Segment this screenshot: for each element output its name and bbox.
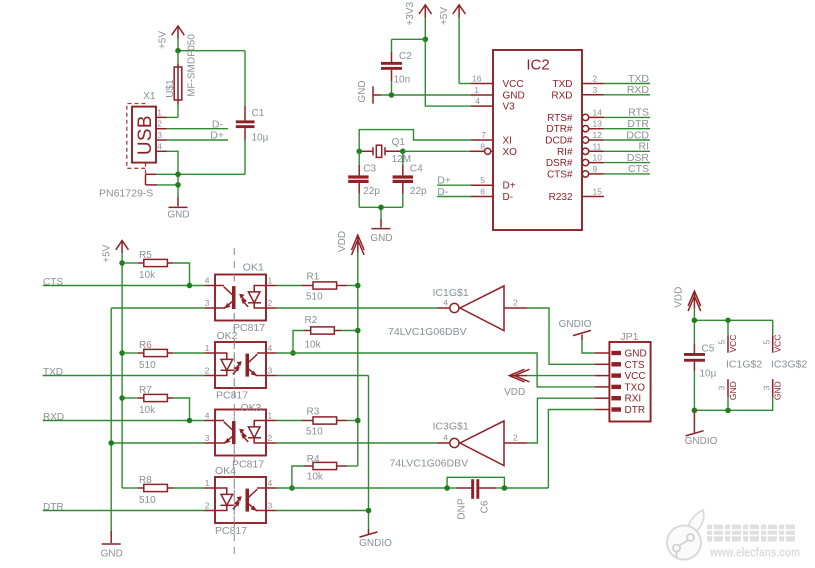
connector X1 USB body xyxy=(99,91,156,199)
connector X1 USB shield (dashed) xyxy=(127,104,146,185)
pin IC2 15 (unconnected) xyxy=(582,187,604,197)
svg-text:IC1G$2: IC1G$2 xyxy=(726,359,762,371)
isolation boundary dashed line xyxy=(233,248,235,557)
svg-text:5: 5 xyxy=(480,175,485,185)
svg-text:R3: R3 xyxy=(307,407,320,418)
supply +3V3 xyxy=(405,2,432,40)
wire GND net under USB xyxy=(156,174,245,196)
resistor R1 510 (OK1 pullup) xyxy=(277,272,358,303)
svg-text:DSR: DSR xyxy=(627,152,650,164)
wire DTR row xyxy=(43,502,205,513)
resistor R4 10k (OK4 pullup) xyxy=(292,454,358,488)
pin IC2 DTR# 13 / net label DTR xyxy=(582,118,650,132)
svg-text:R4: R4 xyxy=(307,454,320,465)
svg-text:USB: USB xyxy=(135,115,156,155)
svg-text:GND: GND xyxy=(503,90,525,101)
pin IC2 RXD 3 / net label RXD xyxy=(582,84,650,96)
node junction crystal left xyxy=(356,149,362,155)
svg-text:1: 1 xyxy=(205,343,210,353)
svg-text:TXD: TXD xyxy=(553,79,573,90)
node junction OK3 emitter xyxy=(108,440,114,446)
svg-text:10n: 10n xyxy=(394,75,411,86)
svg-text:510: 510 xyxy=(306,292,323,303)
svg-text:22p: 22p xyxy=(363,186,380,197)
svg-text:OK2: OK2 xyxy=(217,330,238,342)
svg-text:10: 10 xyxy=(593,153,603,163)
node junction +3V3/C2 xyxy=(423,37,429,43)
svg-text:GND: GND xyxy=(357,80,368,102)
wire JP1 GND pin to GNDIO xyxy=(582,340,595,353)
supply +5V (USB area) xyxy=(157,26,184,51)
wire D+ to IC2 pin5 xyxy=(437,175,493,187)
pin stub USB pin4 wire to GND net xyxy=(156,151,178,174)
svg-text:GNDIO: GNDIO xyxy=(685,436,718,447)
svg-text:GNDIO: GNDIO xyxy=(559,319,592,330)
svg-text:OK1: OK1 xyxy=(243,261,264,273)
svg-text:R2: R2 xyxy=(305,315,318,326)
svg-text:3: 3 xyxy=(205,298,210,308)
svg-text:3: 3 xyxy=(268,501,273,511)
svg-text:www.elecfans.com: www.elecfans.com xyxy=(709,545,800,560)
wire VDD rail (right block) xyxy=(694,320,772,344)
svg-text:R1: R1 xyxy=(307,272,320,283)
svg-text:2: 2 xyxy=(205,501,210,511)
svg-text:VDD: VDD xyxy=(337,231,348,252)
svg-text:510: 510 xyxy=(139,360,156,371)
svg-text:CTS: CTS xyxy=(625,360,645,371)
svg-text:1: 1 xyxy=(157,107,162,117)
svg-text:PC817: PC817 xyxy=(232,459,264,471)
svg-text:VCC: VCC xyxy=(728,335,738,353)
svg-text:8: 8 xyxy=(480,141,485,151)
svg-text:CTS#: CTS# xyxy=(547,169,573,180)
wire OK1 LED cathode to inverter IC1 output xyxy=(277,307,450,309)
pin numbers USB 1-4 xyxy=(157,107,162,151)
wire C3/C4 common to ground xyxy=(359,207,403,219)
pin IC2 CTS# 9 / net label CTS xyxy=(582,163,650,177)
ground GND (USB) xyxy=(167,197,189,221)
wire +5V net to C1 xyxy=(178,50,245,52)
svg-text:14: 14 xyxy=(593,107,603,117)
ground GNDIO (bottom) xyxy=(359,529,392,549)
svg-text:DCD#: DCD# xyxy=(545,136,573,147)
svg-text:3: 3 xyxy=(761,385,771,390)
svg-text:22p: 22p xyxy=(410,186,427,197)
wire fuse to USB pin1 xyxy=(156,100,178,117)
svg-text:16: 16 xyxy=(472,74,482,84)
pin IC2 TXD 2 / net label TXD xyxy=(582,73,650,85)
svg-text:6: 6 xyxy=(480,187,485,197)
node junctions on +5V rail xyxy=(119,260,125,266)
svg-text:IC1G$1: IC1G$1 xyxy=(433,287,469,299)
svg-text:XI: XI xyxy=(503,136,512,147)
power pins IC3G$2 xyxy=(694,320,807,410)
connector JP1 xyxy=(595,331,651,422)
optocoupler OK3 PC817 xyxy=(205,402,277,470)
wire IC1 input from JP1 CTS xyxy=(527,308,594,364)
svg-text:4: 4 xyxy=(157,141,162,151)
svg-text:VCC: VCC xyxy=(625,371,646,382)
resistor R3 510 (OK3 pullup) xyxy=(277,407,358,438)
wire GND rail (left, OK1/OK3 emitters) xyxy=(111,308,204,531)
node junction +5V/fuse xyxy=(175,48,181,54)
svg-text:U$1: U$1 xyxy=(165,79,176,98)
wire +5V to IC2 pin16 xyxy=(459,83,493,85)
svg-text:+5V: +5V xyxy=(439,7,450,25)
svg-text:4: 4 xyxy=(443,433,448,443)
ground GNDIO (right block) xyxy=(685,410,718,447)
pin IC2 DSR# 10 / net label DSR xyxy=(582,152,650,166)
svg-text:V3: V3 xyxy=(503,102,516,113)
svg-text:VDD: VDD xyxy=(674,287,685,308)
svg-text:D+: D+ xyxy=(210,130,224,142)
svg-text:+3V3: +3V3 xyxy=(405,2,416,26)
svg-text:RXD: RXD xyxy=(627,84,650,96)
svg-text:C3: C3 xyxy=(363,164,376,175)
svg-text:4: 4 xyxy=(268,343,273,353)
watermark elecfans logo xyxy=(667,510,704,560)
svg-text:GNDIO: GNDIO xyxy=(359,538,392,549)
resistor R2 10k (OK2 pullup) xyxy=(293,315,358,353)
svg-text:15: 15 xyxy=(593,187,603,197)
svg-text:1: 1 xyxy=(268,411,273,421)
svg-text:D+: D+ xyxy=(503,181,516,192)
pin IC2 RI# 11 / net label RI xyxy=(582,141,650,155)
supply VDD (isolated side rail) xyxy=(337,231,364,466)
svg-text:4: 4 xyxy=(475,96,480,106)
svg-text:IC3G$1: IC3G$1 xyxy=(433,421,469,433)
wire XO net (crystal to IC2 pin8 with circle) xyxy=(403,148,493,154)
svg-text:C6: C6 xyxy=(480,500,491,513)
power pins IC1G$2 xyxy=(717,320,763,410)
svg-text:DTR#: DTR# xyxy=(546,124,573,135)
supply VDD (right block) xyxy=(674,287,701,321)
svg-text:+5V: +5V xyxy=(101,244,112,262)
svg-text:PN61729-S: PN61729-S xyxy=(99,187,153,199)
wire OK2 emitter to GNDIO rail xyxy=(277,376,369,530)
svg-text:10µ: 10µ xyxy=(252,133,269,144)
svg-text:GND: GND xyxy=(370,233,392,244)
svg-text:R6: R6 xyxy=(139,340,152,351)
svg-text:74LVC1G06DBV: 74LVC1G06DBV xyxy=(390,458,469,470)
wire OK4 collector net to JP1 DTR xyxy=(277,410,595,489)
IC2 FT232 box xyxy=(493,50,582,230)
svg-text:5: 5 xyxy=(717,340,727,345)
svg-text:D-: D- xyxy=(212,118,224,130)
svg-text:GND: GND xyxy=(625,349,647,360)
svg-text:CTS: CTS xyxy=(628,163,649,175)
supply +5V (top) xyxy=(439,5,465,84)
svg-text:4: 4 xyxy=(205,411,210,421)
supply VDD (JP1 VCC, pointing left) xyxy=(504,369,595,398)
wire CTS row xyxy=(43,277,205,288)
svg-text:3: 3 xyxy=(205,433,210,443)
svg-text:C4: C4 xyxy=(410,164,423,175)
svg-text:GND: GND xyxy=(101,549,123,560)
svg-text:2: 2 xyxy=(205,366,210,376)
optocoupler OK1 PC817 xyxy=(205,261,277,334)
svg-text:GND: GND xyxy=(167,210,189,221)
svg-text:3: 3 xyxy=(268,366,273,376)
svg-text:D-: D- xyxy=(503,192,514,203)
svg-text:C2: C2 xyxy=(399,51,412,62)
capacitor C1 10u xyxy=(236,51,269,175)
svg-text:2: 2 xyxy=(268,433,273,443)
svg-text:RXI: RXI xyxy=(625,394,642,405)
svg-text:510: 510 xyxy=(139,495,156,506)
node junction R7/RXD xyxy=(187,418,193,424)
wire D- to IC2 pin6 xyxy=(437,186,493,198)
svg-text:510: 510 xyxy=(306,427,323,438)
svg-text:RXD: RXD xyxy=(43,412,64,423)
svg-text:IC2: IC2 xyxy=(526,57,549,74)
wire OK2 collector net to TXO xyxy=(277,353,595,387)
node junction crystal right xyxy=(400,149,406,155)
resistor R8 510 xyxy=(122,475,204,506)
pin stub USB pin2 / wire D- xyxy=(156,118,228,130)
svg-text:4: 4 xyxy=(443,298,448,308)
svg-text:12: 12 xyxy=(593,130,603,140)
svg-text:1: 1 xyxy=(268,276,273,286)
svg-text:4: 4 xyxy=(268,478,273,488)
wire OK3 LED cathode to inverter IC3 output xyxy=(277,442,450,444)
capacitor C4 22p xyxy=(393,151,427,207)
svg-text:PC817: PC817 xyxy=(215,525,247,537)
svg-text:R8: R8 xyxy=(139,475,152,486)
svg-text:RTS#: RTS# xyxy=(547,113,573,124)
svg-text:2: 2 xyxy=(268,298,273,308)
svg-text:13: 13 xyxy=(593,119,603,129)
optocoupler OK2 PC817 xyxy=(205,330,277,402)
pin IC2 RTS# 14 / net label RTS xyxy=(582,107,650,121)
node junctions GND net xyxy=(175,172,181,178)
pin numbers IC2 left xyxy=(472,74,486,197)
ground GND (C2, rotated) xyxy=(357,80,382,103)
svg-text:VCC: VCC xyxy=(773,335,783,353)
svg-text:10k: 10k xyxy=(139,270,156,281)
svg-text:VCC: VCC xyxy=(503,79,524,90)
svg-text:XO: XO xyxy=(503,147,518,158)
svg-text:DCD: DCD xyxy=(626,129,649,141)
svg-text:3: 3 xyxy=(593,85,598,95)
svg-text:JP1: JP1 xyxy=(620,331,638,343)
resistor R5 10k xyxy=(122,250,189,286)
wire XI net (IC2 pin7 to crystal left) xyxy=(359,130,493,152)
svg-text:R232: R232 xyxy=(549,192,573,203)
inverter IC1G$1 74LVC1G06DBV xyxy=(388,286,527,338)
svg-text:RXD: RXD xyxy=(551,90,572,101)
wire IC3 input from JP1 RXI xyxy=(527,398,594,443)
svg-text:10k: 10k xyxy=(139,405,156,416)
svg-text:RTS: RTS xyxy=(628,107,649,119)
svg-text:3: 3 xyxy=(157,130,162,140)
svg-text:2: 2 xyxy=(513,298,518,308)
ground GND (crystal) xyxy=(370,219,392,244)
watermark chinese text xyxy=(707,525,795,542)
capacitor C5 10u xyxy=(684,344,717,411)
svg-text:4: 4 xyxy=(205,276,210,286)
svg-text:OK4: OK4 xyxy=(215,465,236,477)
inverter IC3G$1 74LVC1G06DBV xyxy=(390,421,528,470)
svg-text:DSR#: DSR# xyxy=(546,158,573,169)
svg-text:GND: GND xyxy=(728,381,738,400)
ground GND (bottom left) xyxy=(101,531,123,560)
svg-text:7: 7 xyxy=(481,130,486,140)
svg-text:2: 2 xyxy=(593,74,598,84)
svg-text:C1: C1 xyxy=(252,108,265,119)
wire GND net to IC2 pin1 xyxy=(381,94,493,96)
supply +5V (lower left) xyxy=(101,241,128,488)
svg-text:2: 2 xyxy=(157,119,162,129)
wire RXD row xyxy=(43,412,205,423)
node junction R5/CTS xyxy=(187,283,193,289)
svg-text:5: 5 xyxy=(761,340,771,345)
svg-text:+5V: +5V xyxy=(157,31,168,49)
svg-text:CTS: CTS xyxy=(43,277,63,288)
svg-text:DNP: DNP xyxy=(457,498,468,519)
ground GNDIO (JP1) xyxy=(559,319,592,340)
capacitor C6 DNP xyxy=(447,477,504,519)
wire TXD row xyxy=(43,367,205,378)
node junction C3/C4 xyxy=(378,205,384,211)
svg-text:TXO: TXO xyxy=(625,382,646,393)
svg-text:MF-SMDF050: MF-SMDF050 xyxy=(187,34,198,97)
svg-text:R5: R5 xyxy=(139,250,152,261)
crystal Q1 12M xyxy=(359,137,411,165)
svg-text:11: 11 xyxy=(593,141,602,151)
fuse U$1 MF-SMDF050 xyxy=(165,34,198,100)
svg-text:10k: 10k xyxy=(307,472,324,483)
svg-text:PC817: PC817 xyxy=(216,390,248,402)
svg-text:OK3: OK3 xyxy=(241,402,262,414)
svg-text:RI#: RI# xyxy=(557,147,573,158)
svg-text:IC3G$2: IC3G$2 xyxy=(771,359,807,371)
svg-text:9: 9 xyxy=(593,164,598,174)
pin stub USB pin3 / wire D+ xyxy=(156,130,228,142)
wire OK4 emitter to GNDIO rail xyxy=(277,510,369,512)
svg-text:DTR: DTR xyxy=(625,405,646,416)
svg-text:GND: GND xyxy=(773,381,783,400)
wire +3V3 to IC2 pin4 xyxy=(425,39,493,106)
svg-text:C5: C5 xyxy=(702,344,715,355)
svg-text:3: 3 xyxy=(717,385,727,390)
svg-text:VDD: VDD xyxy=(504,387,525,398)
optocoupler OK4 PC817 xyxy=(205,465,277,537)
USB shield pins xyxy=(146,174,158,185)
wire junction to fuse xyxy=(177,51,179,67)
resistor R6 510 xyxy=(122,340,204,371)
svg-text:Q1: Q1 xyxy=(392,137,406,148)
svg-text:10µ: 10µ xyxy=(700,369,717,380)
svg-text:PC817: PC817 xyxy=(233,322,265,334)
svg-text:12M: 12M xyxy=(392,154,411,165)
svg-text:DTR: DTR xyxy=(43,502,64,513)
svg-text:TXD: TXD xyxy=(43,367,63,378)
svg-text:2: 2 xyxy=(513,433,518,443)
svg-text:74LVC1G06DBV: 74LVC1G06DBV xyxy=(388,326,467,338)
capacitor C2 10n xyxy=(381,39,425,95)
svg-text:X1: X1 xyxy=(143,91,156,102)
pin IC2 DCD# 12 / net label DCD xyxy=(582,129,650,143)
svg-text:1: 1 xyxy=(205,478,210,488)
svg-text:TXD: TXD xyxy=(628,73,649,85)
svg-text:R7: R7 xyxy=(139,385,152,396)
capacitor C3 22p xyxy=(348,151,380,207)
resistor R7 10k xyxy=(122,385,189,421)
svg-text:10k: 10k xyxy=(305,340,322,351)
svg-text:DTR: DTR xyxy=(627,118,649,130)
node junction C2/GND xyxy=(389,92,395,98)
svg-text:1: 1 xyxy=(474,85,479,95)
svg-text:RI: RI xyxy=(639,141,650,153)
